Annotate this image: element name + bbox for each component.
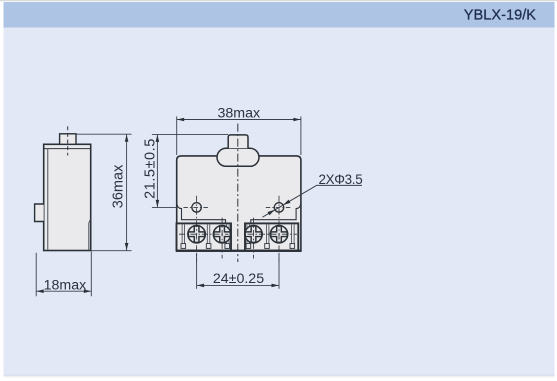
dim 24 arrow right (272, 284, 279, 288)
top hairline (0, 0, 557, 1)
bottom edge bar (176, 250, 302, 252)
hole right horizontal centerline (266, 206, 292, 208)
block feet (181, 244, 295, 249)
hole left vertical centerline (196, 196, 198, 262)
side-view body (44, 144, 91, 250)
front-view boss (stadium) (217, 148, 259, 166)
leader arrow upper (283, 200, 290, 205)
main vertical centerline (237, 124, 239, 262)
inner screw vertical centerline right (253, 218, 255, 259)
dim 21.5 bottom extension line (152, 206, 177, 208)
side-view chamfer diagonal (89, 219, 91, 223)
dim 38max dimension line (177, 119, 301, 121)
dim 21.5 arrow down (156, 200, 160, 207)
dim 36max arrow down (125, 243, 129, 250)
svg-text:24±0.25: 24±0.25 (213, 271, 264, 287)
dim 18max arrow right (84, 289, 91, 293)
screws horizontal centerline right block (248, 233, 298, 235)
dim 38max right extension line (300, 116, 302, 155)
dim 36max bottom extension line (91, 250, 132, 252)
side-view plunger (60, 134, 76, 145)
inner screw vertical centerline left (221, 218, 223, 259)
side-view inner left vertical line (47, 149, 49, 250)
block left clamp bars (182, 225, 229, 249)
side-view plunger dashed centerline (67, 126, 69, 155)
screws horizontal centerline left block (179, 233, 229, 235)
dim 24 right extension line (278, 253, 280, 289)
dim 18max arrow left (37, 289, 44, 293)
svg-text:36max: 36max (110, 164, 126, 208)
block right clamp bars (247, 225, 294, 249)
header band (4, 2, 555, 28)
terminal block right (245, 223, 298, 250)
dim 38max left extension line (176, 116, 178, 155)
side-view mounting lug fill (35, 205, 44, 221)
dim 21.5 dimension line (156, 134, 158, 207)
side-view mounting lug outline (35, 204, 44, 222)
dim 21.5 top extension line (152, 133, 228, 135)
hole right vertical centerline (278, 196, 280, 262)
dim 36max arrow up (125, 135, 129, 142)
svg-text:18max: 18max (44, 277, 87, 293)
dim 21.5 arrow up (156, 135, 160, 142)
dim 18max right extension line (90, 252, 92, 297)
svg-text:YBLX-19/K: YBLX-19/K (464, 7, 536, 23)
panel bottom soft edge (4, 375, 555, 377)
svg-text:38max: 38max (218, 106, 261, 122)
dim 36max top extension line (76, 133, 131, 135)
leader line 2XΦ3.5 (262, 185, 317, 217)
front-view right waist step (251, 203, 301, 223)
screw terminal 3 (245, 226, 262, 243)
mounting hole left (192, 203, 201, 212)
terminal block left (177, 223, 232, 250)
screw terminal 2 (213, 226, 230, 243)
front-view left waist step (177, 203, 226, 223)
screw terminal 4 (270, 226, 287, 243)
svg-text:21.5±0.5: 21.5±0.5 (143, 138, 159, 199)
dim 36max dimension line (126, 134, 128, 250)
label underline 2XΦ3.5 (317, 184, 362, 186)
hole left horizontal centerline (183, 206, 209, 208)
front-view body (177, 156, 301, 251)
side-view bottom-right chamfer vertical (88, 223, 90, 250)
side-view top cap line (45, 148, 91, 150)
dim 24 arrow left (197, 284, 204, 288)
dim 38max arrow left (177, 118, 184, 122)
dim 38max arrow right (293, 118, 300, 122)
dim 24 left extension line (196, 253, 198, 289)
mounting hole right (274, 203, 283, 212)
dim 18max dimension line (36, 290, 91, 292)
dim 24 dimension line (197, 284, 279, 286)
svg-text:2XΦ3.5: 2XΦ3.5 (319, 172, 363, 187)
screw terminal 1 (188, 226, 205, 243)
dim 18max left extension line (35, 253, 37, 296)
leader arrow lower (268, 210, 275, 215)
front-view plunger (228, 135, 248, 148)
